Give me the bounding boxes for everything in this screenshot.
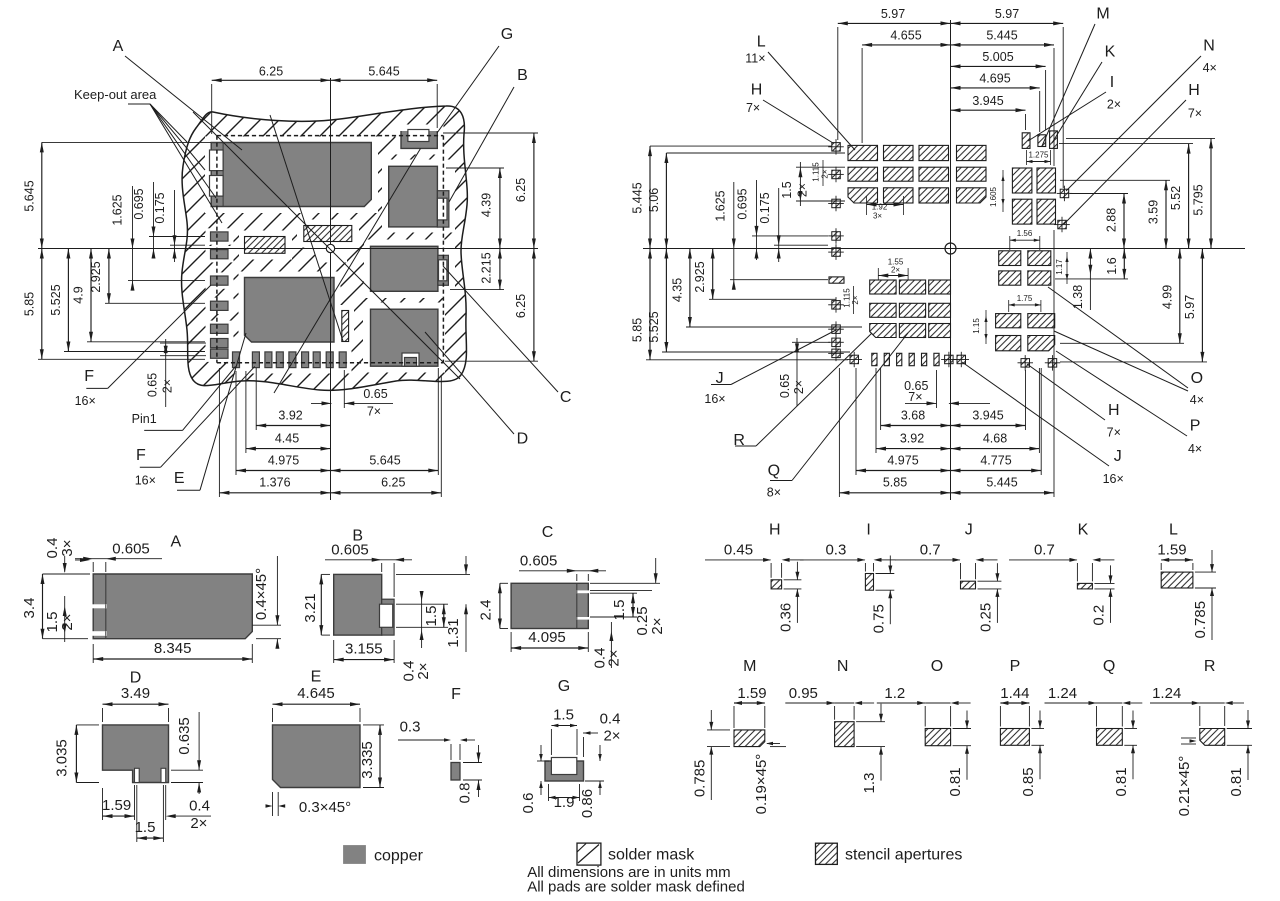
svg-text:0.75: 0.75 xyxy=(870,604,887,633)
detail E dim 4.645 xyxy=(273,703,361,705)
svg-text:O: O xyxy=(931,658,943,675)
svg-text:0.85: 0.85 xyxy=(1020,767,1037,796)
stencil grid for pad C (2x2) xyxy=(999,251,1021,266)
legend solder mask swatch xyxy=(577,843,601,865)
svg-text:0.25: 0.25 xyxy=(977,603,994,632)
svg-text:1.275: 1.275 xyxy=(1028,151,1049,160)
svg-text:0.45: 0.45 xyxy=(724,542,753,559)
svg-text:3.4: 3.4 xyxy=(21,598,38,619)
svg-text:4.35: 4.35 xyxy=(671,278,685,302)
svg-text:1.59: 1.59 xyxy=(1157,542,1186,559)
dimension 1.92 3x (grid A cols) xyxy=(867,204,904,206)
svg-text:3×: 3× xyxy=(59,539,76,556)
pad B mask window xyxy=(437,198,447,220)
dimension 5.445 / 5.85 (left outer of right view) xyxy=(649,146,651,360)
svg-text:1.5: 1.5 xyxy=(780,181,794,198)
svg-text:K: K xyxy=(1078,521,1089,538)
dimension 0.65 7x (bottom pads pitch) xyxy=(311,402,332,404)
svg-text:1.31: 1.31 xyxy=(445,618,462,647)
svg-text:3.945: 3.945 xyxy=(972,94,1003,108)
dimension 5.645 / 5.85 (left outer) xyxy=(41,142,43,359)
svg-text:5.97: 5.97 xyxy=(995,7,1019,21)
svg-text:1.3: 1.3 xyxy=(861,773,878,794)
svg-text:0.81: 0.81 xyxy=(947,767,964,796)
detail A dim 0.605 xyxy=(75,558,162,560)
svg-text:7×: 7× xyxy=(367,404,381,418)
svg-text:1.115: 1.115 xyxy=(812,162,821,182)
svg-text:2×: 2× xyxy=(649,617,666,634)
small aperture symbols (right side) xyxy=(1060,189,1069,198)
svg-text:5.645: 5.645 xyxy=(23,180,37,211)
svg-text:5.525: 5.525 xyxy=(49,284,63,315)
svg-text:Q: Q xyxy=(1103,658,1115,675)
svg-text:3.92: 3.92 xyxy=(900,431,924,445)
svg-text:5.97: 5.97 xyxy=(1183,295,1197,319)
svg-text:2×: 2× xyxy=(851,295,860,304)
svg-text:2×: 2× xyxy=(821,169,830,178)
dimension 4.975 / 5.645 (bottom) xyxy=(236,470,438,472)
svg-text:G: G xyxy=(501,26,513,43)
svg-text:1.15: 1.15 xyxy=(972,318,981,334)
svg-text:0.65: 0.65 xyxy=(145,373,159,397)
svg-text:O: O xyxy=(1191,370,1203,387)
dimension 5.52 xyxy=(1188,144,1190,249)
dimension 4.35 xyxy=(689,249,691,328)
svg-text:0.7: 0.7 xyxy=(920,542,941,559)
svg-text:0.605: 0.605 xyxy=(112,541,150,558)
svg-text:2×: 2× xyxy=(891,265,900,274)
svg-text:C: C xyxy=(560,389,572,406)
svg-text:0.8: 0.8 xyxy=(457,783,474,804)
svg-text:I: I xyxy=(1110,74,1114,91)
svg-text:0.4: 0.4 xyxy=(600,711,621,728)
svg-text:0.81: 0.81 xyxy=(1228,767,1245,796)
svg-text:D: D xyxy=(517,431,529,448)
svg-text:N: N xyxy=(837,658,849,675)
dimension 4.39 / 2.215 (right inner) xyxy=(499,168,501,290)
svg-text:3.035: 3.035 xyxy=(54,739,71,777)
svg-text:4.975: 4.975 xyxy=(887,453,918,467)
pad E (copper pad bottom-left) xyxy=(245,278,335,343)
svg-text:stencil apertures: stencil apertures xyxy=(845,847,962,864)
dimension 4.45 xyxy=(246,448,331,450)
svg-text:5.85: 5.85 xyxy=(883,476,907,490)
svg-text:2.925: 2.925 xyxy=(693,261,707,292)
svg-text:3.49: 3.49 xyxy=(121,685,150,702)
pad A edge slots xyxy=(210,150,224,171)
left view center mark xyxy=(330,78,332,500)
svg-text:4.095: 4.095 xyxy=(528,629,566,646)
pad B (copper pad right upper) xyxy=(389,166,438,227)
pad C mask window xyxy=(439,260,447,281)
svg-text:2.215: 2.215 xyxy=(480,252,494,283)
svg-text:3.68: 3.68 xyxy=(901,408,925,422)
svg-text:5.445: 5.445 xyxy=(631,182,645,213)
svg-text:1.605: 1.605 xyxy=(989,186,998,207)
svg-text:4.775: 4.775 xyxy=(980,453,1011,467)
svg-text:1.92: 1.92 xyxy=(872,203,888,212)
stencil apertures I/M/K (top small) xyxy=(1022,133,1030,149)
svg-text:1.376: 1.376 xyxy=(259,476,290,490)
dimension 4.99 xyxy=(1179,249,1181,344)
detail B dim 3.155 xyxy=(334,659,394,661)
dimension 4.9 xyxy=(90,249,92,342)
detail C dim 4.095 xyxy=(511,647,588,649)
svg-text:16×: 16× xyxy=(1103,472,1124,486)
svg-text:5.005: 5.005 xyxy=(982,50,1013,64)
dimension 5.795 xyxy=(1210,138,1212,248)
right view centerlines xyxy=(950,20,952,500)
dimension 0.65 7x (right view) xyxy=(905,402,937,404)
svg-text:B: B xyxy=(517,67,528,84)
solder mask web rectangles xyxy=(245,237,286,254)
svg-text:L: L xyxy=(1169,521,1178,538)
pad D bottom notch xyxy=(402,353,419,366)
svg-text:4×: 4× xyxy=(1188,442,1202,456)
detail A dim 8.345 xyxy=(93,658,252,660)
svg-text:2.88: 2.88 xyxy=(1105,208,1119,232)
stencil grid for pad B (2x2) xyxy=(1012,168,1032,193)
svg-text:1.24: 1.24 xyxy=(1152,685,1181,702)
detail D dim 1.59 xyxy=(103,815,135,817)
small flat aperture J (left column) xyxy=(829,277,844,283)
svg-text:2×: 2× xyxy=(415,662,432,679)
svg-text:C: C xyxy=(542,524,554,541)
dimension 6.25 / 6.25 (right outer) xyxy=(533,133,535,361)
dimension 2.925 xyxy=(108,249,110,304)
dimension 4.695 xyxy=(951,87,1040,89)
svg-text:6.25: 6.25 xyxy=(259,64,283,78)
svg-text:5.445: 5.445 xyxy=(986,476,1017,490)
svg-text:1.5: 1.5 xyxy=(553,707,574,724)
svg-text:1.625: 1.625 xyxy=(714,190,728,221)
svg-text:3.155: 3.155 xyxy=(345,640,383,657)
svg-text:0.86: 0.86 xyxy=(579,789,596,818)
legend stencil apertures swatch xyxy=(816,843,838,864)
svg-text:0.3: 0.3 xyxy=(400,719,421,736)
steep leader to small mask web xyxy=(270,115,343,341)
svg-text:0.21×45°: 0.21×45° xyxy=(1176,756,1193,817)
svg-text:1.59: 1.59 xyxy=(102,797,131,814)
svg-text:0.65: 0.65 xyxy=(363,387,387,401)
dimension 2.925 (right view) xyxy=(712,249,714,300)
svg-text:Q: Q xyxy=(768,462,780,479)
svg-text:0.2: 0.2 xyxy=(1091,605,1108,626)
dimension 1.376 / 6.25 (bottom outer) xyxy=(219,492,441,494)
svg-text:0.175: 0.175 xyxy=(153,192,167,223)
svg-text:0.19×45°: 0.19×45° xyxy=(753,754,770,815)
svg-text:5.645: 5.645 xyxy=(369,453,400,467)
svg-text:I: I xyxy=(866,521,870,538)
svg-text:J: J xyxy=(965,521,973,538)
dimension 5.85 / 5.445 (bottom outer) xyxy=(839,492,1054,494)
svg-text:solder mask: solder mask xyxy=(608,847,695,864)
svg-text:5.645: 5.645 xyxy=(368,64,399,78)
left view: keep-out blob with solder-mask hatch xyxy=(182,106,468,390)
component body outline (dashed) xyxy=(217,135,444,137)
svg-text:0.635: 0.635 xyxy=(176,717,193,755)
dimension 4.655 / 5.445 xyxy=(862,44,1054,46)
svg-text:0.4: 0.4 xyxy=(189,798,210,815)
dimension 3.92 xyxy=(256,425,330,427)
dimension 6.25 / 5.645 (top) xyxy=(211,84,213,134)
svg-text:7×: 7× xyxy=(1107,426,1121,440)
svg-text:3.21: 3.21 xyxy=(302,593,319,622)
dimension 2.88 xyxy=(1123,194,1125,249)
svg-text:0.7: 0.7 xyxy=(1034,542,1055,559)
svg-text:16×: 16× xyxy=(135,473,156,487)
svg-text:0.175: 0.175 xyxy=(758,192,772,223)
svg-text:2.4: 2.4 xyxy=(478,600,495,621)
svg-text:4.68: 4.68 xyxy=(983,431,1007,445)
svg-text:copper: copper xyxy=(374,848,424,865)
svg-text:7×: 7× xyxy=(1188,107,1202,121)
svg-text:2×: 2× xyxy=(603,728,620,745)
svg-text:0.605: 0.605 xyxy=(331,542,369,559)
svg-text:J: J xyxy=(1114,448,1122,465)
svg-text:4.39: 4.39 xyxy=(480,193,494,217)
svg-text:5.97: 5.97 xyxy=(881,7,905,21)
svg-text:E: E xyxy=(311,669,322,686)
svg-text:1.75: 1.75 xyxy=(1017,294,1033,303)
svg-text:P: P xyxy=(1190,417,1201,434)
svg-text:1.24: 1.24 xyxy=(1048,685,1077,702)
svg-text:5.06: 5.06 xyxy=(647,188,661,212)
long diagonal leader across blob (45deg) xyxy=(193,112,460,379)
dimension 3.945 xyxy=(951,109,1026,111)
small stencil aperture symbols (left column) xyxy=(832,143,841,152)
svg-text:1.17: 1.17 xyxy=(1055,259,1064,275)
pads F bottom row (9x) xyxy=(233,352,240,368)
dimension 1.6 xyxy=(1123,249,1125,279)
dimension 5.005 xyxy=(951,65,1046,67)
solder mask openings (white clearances) xyxy=(205,137,378,214)
svg-text:5.795: 5.795 xyxy=(1192,184,1206,215)
svg-text:0.3: 0.3 xyxy=(825,542,846,559)
svg-text:5.445: 5.445 xyxy=(986,29,1017,43)
dimension 5.06 / 5.525 xyxy=(665,153,667,352)
svg-text:6.25: 6.25 xyxy=(514,294,528,318)
svg-text:F: F xyxy=(136,447,146,464)
svg-text:1.625: 1.625 xyxy=(111,194,125,225)
pad C (copper pad right middle) xyxy=(371,246,438,291)
svg-text:G: G xyxy=(558,678,570,695)
svg-text:3×: 3× xyxy=(873,212,882,221)
svg-text:Pin1: Pin1 xyxy=(132,412,157,426)
pad A (large copper pad top-left) xyxy=(211,143,371,207)
svg-text:8×: 8× xyxy=(767,486,781,500)
svg-text:2×: 2× xyxy=(1107,98,1121,112)
svg-text:6.25: 6.25 xyxy=(514,178,528,202)
svg-text:7×: 7× xyxy=(746,101,760,115)
svg-text:2×: 2× xyxy=(59,613,76,630)
dimension 3.68 / 3.945 (right view bottom) xyxy=(881,425,1026,427)
svg-text:16×: 16× xyxy=(704,392,725,406)
svg-text:2×: 2× xyxy=(606,649,623,666)
svg-text:1.44: 1.44 xyxy=(1000,685,1029,702)
detail C dim 0.605 xyxy=(519,570,606,572)
svg-text:5.85: 5.85 xyxy=(23,292,37,316)
svg-text:H: H xyxy=(769,521,781,538)
svg-text:0.95: 0.95 xyxy=(789,685,818,702)
svg-text:0.695: 0.695 xyxy=(735,188,749,219)
svg-text:M: M xyxy=(1096,6,1109,23)
dimension 3.59 xyxy=(1165,180,1167,248)
svg-text:0.785: 0.785 xyxy=(692,760,709,798)
svg-text:0.65: 0.65 xyxy=(778,374,792,398)
svg-text:H: H xyxy=(1188,82,1200,99)
svg-text:0.785: 0.785 xyxy=(1192,601,1209,639)
svg-text:All pads are solder mask defin: All pads are solder mask defined xyxy=(527,879,745,896)
svg-text:P: P xyxy=(1010,658,1021,675)
svg-text:5.85: 5.85 xyxy=(631,318,645,342)
svg-text:2×: 2× xyxy=(796,183,810,197)
svg-text:R: R xyxy=(1204,658,1216,675)
svg-text:5.52: 5.52 xyxy=(1169,186,1183,210)
svg-text:4.975: 4.975 xyxy=(268,453,299,467)
svg-text:6.25: 6.25 xyxy=(381,476,405,490)
svg-text:2×: 2× xyxy=(792,380,806,394)
svg-text:2×: 2× xyxy=(161,379,175,393)
dimension 5.97 (right bottom) xyxy=(1201,249,1203,362)
svg-text:F: F xyxy=(84,368,94,385)
svg-text:8.345: 8.345 xyxy=(154,640,192,657)
svg-text:1.59: 1.59 xyxy=(737,685,766,702)
svg-text:4.645: 4.645 xyxy=(297,685,335,702)
svg-text:3.335: 3.335 xyxy=(359,741,376,779)
svg-text:11×: 11× xyxy=(745,52,765,66)
svg-text:N: N xyxy=(1203,38,1215,55)
svg-text:2.925: 2.925 xyxy=(89,261,103,292)
svg-text:4.99: 4.99 xyxy=(1161,285,1175,309)
svg-text:4×: 4× xyxy=(1190,393,1204,407)
svg-text:1.9: 1.9 xyxy=(554,794,575,811)
svg-text:H: H xyxy=(751,82,763,99)
svg-text:1.56: 1.56 xyxy=(1017,229,1033,238)
svg-text:7×: 7× xyxy=(908,390,922,404)
svg-text:5.525: 5.525 xyxy=(647,311,661,342)
svg-text:4×: 4× xyxy=(1203,61,1217,75)
small mask web right of pad E xyxy=(342,311,349,342)
pad D (copper pad bottom-right) xyxy=(371,309,438,366)
svg-text:1.6: 1.6 xyxy=(1105,257,1119,274)
stencil grid for pad A (3x4) xyxy=(848,145,878,160)
svg-text:4.695: 4.695 xyxy=(979,72,1010,86)
svg-text:0.695: 0.695 xyxy=(132,188,146,219)
legend copper swatch xyxy=(343,845,366,864)
svg-text:0.4×45°: 0.4×45° xyxy=(253,568,270,620)
svg-text:3.92: 3.92 xyxy=(278,408,302,422)
svg-text:3.59: 3.59 xyxy=(1147,200,1161,224)
dimension 5.525 xyxy=(67,249,69,352)
svg-text:A: A xyxy=(113,38,124,55)
small aperture symbols (bottom row) xyxy=(850,355,859,364)
svg-text:1.5: 1.5 xyxy=(135,819,156,836)
dimension 5.97 / 5.97 (top) xyxy=(838,22,1063,24)
detail D dim 3.49 xyxy=(103,703,169,705)
svg-text:16×: 16× xyxy=(75,394,96,408)
svg-text:K: K xyxy=(1105,44,1116,61)
svg-text:0.6: 0.6 xyxy=(520,793,537,814)
svg-text:0.3×45°: 0.3×45° xyxy=(299,799,351,816)
svg-text:4.655: 4.655 xyxy=(890,29,921,43)
svg-text:H: H xyxy=(1108,402,1120,419)
svg-text:0.605: 0.605 xyxy=(520,553,558,570)
svg-text:D: D xyxy=(130,670,142,687)
long diagonal leader to pad G underside xyxy=(274,149,421,394)
svg-text:M: M xyxy=(743,658,756,675)
pads F left column (7x) xyxy=(211,232,229,241)
stencil grid for pad E (3x3) xyxy=(870,280,896,294)
svg-text:L: L xyxy=(757,34,766,51)
svg-text:E: E xyxy=(174,470,185,487)
svg-text:4.9: 4.9 xyxy=(72,286,86,303)
svg-text:1.5: 1.5 xyxy=(423,606,440,627)
dimension 3.92 / 4.68 xyxy=(876,448,1039,450)
svg-text:0.36: 0.36 xyxy=(777,603,794,632)
svg-text:Keep-out area: Keep-out area xyxy=(74,87,157,102)
svg-text:4.45: 4.45 xyxy=(275,431,299,445)
svg-text:F: F xyxy=(451,686,461,703)
dimension 1.38 xyxy=(1089,249,1091,311)
svg-text:0.81: 0.81 xyxy=(1113,767,1130,796)
dimension 4.975 / 4.775 xyxy=(856,470,1041,472)
svg-text:1.2: 1.2 xyxy=(884,685,905,702)
pad G (small copper pad top) xyxy=(401,131,437,148)
svg-text:2×: 2× xyxy=(190,815,207,832)
detail B dim 0.605 xyxy=(325,559,412,561)
svg-text:A: A xyxy=(170,533,181,550)
svg-text:3.945: 3.945 xyxy=(972,408,1003,422)
stencil grid for pad D (2x2) xyxy=(996,314,1021,328)
